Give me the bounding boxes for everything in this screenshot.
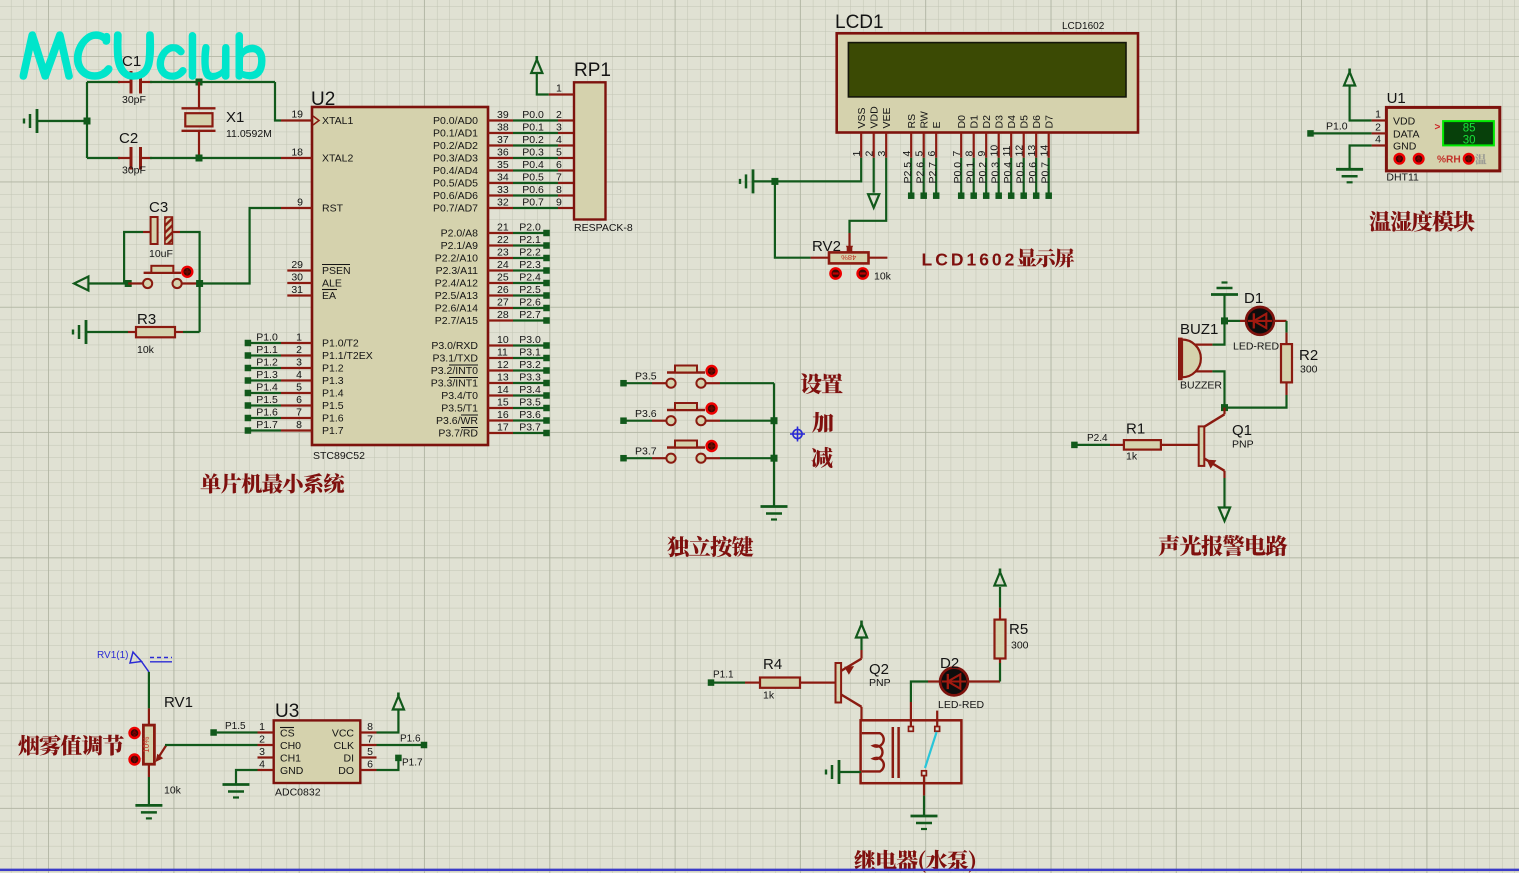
node P3.7	[620, 446, 657, 462]
svg-text:7: 7	[556, 172, 562, 184]
pin 5 DI	[344, 746, 377, 765]
svg-text:P2.3: P2.3	[519, 259, 541, 271]
wire	[148, 672, 150, 709]
svg-text:RW: RW	[919, 111, 931, 128]
label yanwuzhi tiaojie	[18, 735, 123, 756]
pin 4 GND	[236, 759, 304, 785]
ground	[1336, 169, 1363, 182]
svg-text:5: 5	[367, 746, 373, 758]
pin P2.4 / node P2.4	[435, 272, 550, 290]
ground	[761, 507, 788, 520]
svg-text:P0.6/AD6: P0.6/AD6	[433, 190, 478, 202]
svg-text:CLK: CLK	[334, 740, 354, 752]
node P3.6	[620, 408, 657, 424]
svg-text:300: 300	[1300, 364, 1318, 376]
svg-text:P1.4: P1.4	[256, 382, 278, 394]
pin P0.4 / node P0.4	[433, 159, 574, 177]
svg-text:D7: D7	[1044, 115, 1056, 129]
crystal X1	[182, 82, 272, 158]
label jidianqi (shuibeng)	[854, 850, 975, 873]
svg-text:>: >	[1435, 122, 1441, 133]
svg-text:P0.3/AD3: P0.3/AD3	[433, 153, 478, 165]
wire	[165, 744, 258, 746]
power VCC	[531, 56, 549, 95]
svg-text:LED-RED: LED-RED	[938, 699, 985, 711]
svg-text:D3: D3	[994, 115, 1006, 129]
pin P0.3 / node P0.3	[433, 147, 574, 165]
svg-text:13: 13	[1026, 145, 1038, 157]
svg-text:1: 1	[851, 151, 863, 157]
svg-text:9: 9	[556, 197, 562, 209]
push button K3	[652, 441, 720, 463]
svg-text:10uF: 10uF	[149, 248, 173, 260]
potentiometer RV1 10k	[130, 694, 193, 797]
label jia	[812, 412, 833, 433]
svg-text:P0.0/AD0: P0.0/AD0	[433, 115, 478, 127]
svg-text:30: 30	[1463, 135, 1476, 147]
resistor R1 1k	[1110, 421, 1199, 463]
wire / node P2.6	[915, 158, 927, 199]
LED D1 LED-RED	[1225, 290, 1287, 353]
pin EA	[287, 284, 337, 302]
svg-text:P2.7: P2.7	[519, 309, 541, 321]
node P3.5	[620, 371, 657, 387]
svg-text:GND: GND	[280, 765, 304, 777]
pin P0.2 / node P0.2	[433, 134, 574, 152]
svg-text:D6: D6	[1031, 115, 1043, 129]
svg-text:ADC0832: ADC0832	[275, 787, 321, 799]
svg-text:P2.1: P2.1	[519, 234, 541, 246]
svg-text:D2: D2	[981, 115, 993, 129]
junction	[196, 155, 203, 162]
svg-text:P0.3: P0.3	[522, 147, 544, 159]
svg-text:6: 6	[296, 394, 302, 406]
svg-text:10: 10	[989, 145, 1001, 157]
relay contact stub (NC)	[935, 711, 940, 732]
svg-text:R1: R1	[1126, 421, 1145, 438]
svg-text:21: 21	[497, 222, 509, 234]
svg-text:VSS: VSS	[856, 107, 868, 128]
svg-text:P0.0: P0.0	[952, 162, 964, 184]
svg-text:P3.3: P3.3	[519, 372, 541, 384]
svg-text:RV1(1): RV1(1)	[97, 650, 129, 661]
svg-text:STC89C52: STC89C52	[313, 450, 365, 462]
svg-text:R5: R5	[1009, 621, 1028, 638]
wire (VSS to ground)	[777, 158, 861, 182]
svg-text:P3.2/INT0: P3.2/INT0	[431, 365, 478, 377]
capacitor C3	[149, 199, 173, 260]
svg-text:P2.6/A14: P2.6/A14	[435, 303, 478, 315]
svg-text:11: 11	[1001, 145, 1013, 156]
svg-text:1: 1	[556, 83, 562, 95]
pin 8 VCC / power	[332, 693, 404, 740]
svg-text:11.0592M: 11.0592M	[226, 128, 272, 140]
svg-text:P1.5: P1.5	[256, 394, 278, 406]
svg-text:P1.2: P1.2	[322, 363, 344, 375]
push button (reset)	[128, 266, 199, 288]
svg-text:2: 2	[556, 109, 562, 121]
origin marker	[790, 427, 805, 442]
svg-text:P3.2: P3.2	[519, 359, 541, 371]
pin P1.2 / node P1.2	[245, 357, 344, 375]
svg-text:E: E	[931, 121, 943, 128]
wire	[1212, 371, 1224, 407]
svg-text:12: 12	[1014, 145, 1026, 157]
wire (to XTAL1 pin 19)	[275, 82, 281, 121]
pin 10 D3 of LCD1	[989, 115, 1006, 158]
pin 3 CH1	[258, 746, 302, 765]
pin 5 RW of LCD1	[914, 111, 931, 158]
svg-text:P1.6: P1.6	[322, 413, 344, 425]
pin P0.1 / node P0.1	[433, 122, 574, 140]
pin 4 RS of LCD1	[901, 114, 918, 158]
svg-text:48%: 48%	[841, 253, 856, 262]
svg-text:31: 31	[291, 284, 303, 296]
svg-text:14: 14	[497, 384, 509, 396]
buzzer BUZ1	[1178, 321, 1222, 392]
svg-text:P3.4/T0: P3.4/T0	[441, 390, 478, 402]
svg-text:4: 4	[296, 369, 302, 381]
svg-text:27: 27	[497, 297, 509, 309]
svg-text:P1.3: P1.3	[322, 375, 344, 387]
svg-text:P2.6: P2.6	[519, 297, 541, 309]
pin P3.2 / node P3.2	[431, 359, 550, 377]
svg-text:VCC: VCC	[332, 728, 355, 740]
svg-text:P3.6: P3.6	[519, 409, 541, 421]
relay contact (to D2)	[909, 682, 941, 732]
svg-text:RP1: RP1	[574, 60, 611, 81]
svg-text:U1: U1	[1387, 90, 1406, 107]
svg-text:P1.0/T2: P1.0/T2	[322, 338, 359, 350]
svg-text:4: 4	[556, 134, 562, 146]
wire	[1225, 395, 1287, 408]
svg-text:P1.4: P1.4	[322, 388, 344, 400]
pin P0.5 / node P0.5	[433, 172, 574, 190]
svg-text:16: 16	[497, 409, 509, 421]
svg-text:P3.7: P3.7	[519, 422, 541, 434]
svg-text:1k: 1k	[763, 690, 775, 702]
pin 2 DATA / node P1.0	[1307, 121, 1419, 141]
wire (VEE to RV2 wiper)	[846, 158, 886, 253]
svg-text:P1.7: P1.7	[322, 425, 344, 437]
wire	[87, 81, 275, 83]
svg-text:P0.4/AD4: P0.4/AD4	[433, 165, 478, 177]
pin 8 D1 of LCD1	[964, 115, 981, 158]
svg-text:P0.6: P0.6	[522, 184, 544, 196]
svg-text:P0.7/AD7: P0.7/AD7	[433, 203, 478, 215]
svg-text:D1: D1	[1244, 290, 1263, 307]
relay RL1	[861, 720, 962, 783]
capacitor C1	[122, 53, 146, 106]
wire	[128, 331, 200, 333]
svg-text:4: 4	[1375, 134, 1381, 146]
pin 12 D5 of LCD1	[1014, 115, 1031, 158]
svg-text:P2.7/A15: P2.7/A15	[435, 315, 478, 327]
pin P1.7 / node P1.7	[245, 419, 344, 437]
relay pole contact	[922, 771, 927, 815]
svg-text:P1.6: P1.6	[256, 407, 278, 419]
pin P2.2 / node P2.2	[435, 247, 550, 265]
op-amp U2 microcontroller STC89C52	[311, 89, 488, 462]
pin ALE	[287, 272, 342, 290]
svg-text:U2: U2	[311, 89, 335, 110]
svg-text:34: 34	[497, 172, 509, 184]
svg-text:9: 9	[297, 197, 303, 209]
logo MCUclub	[20, 32, 265, 80]
svg-text:11: 11	[497, 347, 508, 359]
ground	[135, 805, 162, 818]
svg-text:DI: DI	[344, 753, 355, 765]
potentiometer RV2 10k	[811, 238, 892, 283]
pin 1 of RP1	[549, 83, 574, 95]
pin 6 E of LCD1	[926, 121, 943, 157]
label danpianji zuixiao xitong	[201, 473, 345, 494]
svg-text:P0.5/AD5: P0.5/AD5	[433, 178, 478, 190]
svg-text:R3: R3	[137, 311, 156, 328]
pin P1.4 / node P1.4	[245, 382, 344, 400]
svg-text:P1.7: P1.7	[402, 758, 423, 769]
svg-text:17: 17	[497, 422, 509, 434]
sheet border	[0, 869, 1519, 871]
svg-text:P1.5: P1.5	[322, 400, 344, 412]
wire / node P0.3	[990, 158, 1002, 199]
svg-text:EA: EA	[322, 290, 336, 302]
svg-text:6: 6	[367, 759, 373, 771]
svg-text:RS: RS	[906, 114, 918, 129]
svg-text:C3: C3	[149, 199, 168, 216]
svg-text:X1: X1	[226, 109, 244, 126]
label shengguang baojing dianlu	[1159, 535, 1288, 556]
pin P2.1 / node P2.1	[441, 234, 550, 252]
svg-text:37: 37	[497, 134, 509, 146]
svg-text:D4: D4	[1006, 115, 1018, 129]
svg-text:8: 8	[296, 419, 302, 431]
svg-text:P3.1/TXD: P3.1/TXD	[432, 353, 478, 365]
svg-text:LCD1602: LCD1602	[922, 250, 1018, 270]
svg-text:P1.0: P1.0	[1326, 121, 1348, 133]
svg-text:P1.6: P1.6	[400, 734, 421, 745]
push button K1	[652, 366, 720, 388]
svg-text:P0.3: P0.3	[990, 162, 1002, 184]
svg-text:C2: C2	[119, 130, 138, 147]
relay switch lever	[925, 732, 937, 768]
svg-text:PNP: PNP	[1232, 439, 1254, 451]
svg-text:6: 6	[926, 151, 938, 157]
svg-text:10%: 10%	[142, 737, 151, 753]
junction	[196, 79, 203, 86]
svg-text:P2.4: P2.4	[519, 272, 541, 284]
svg-text:VEE: VEE	[881, 107, 893, 128]
svg-text:ALE: ALE	[322, 278, 342, 290]
node P2.4	[1071, 433, 1110, 448]
pin P3.3 / node P3.3	[431, 372, 550, 390]
svg-text:P0.7: P0.7	[1040, 162, 1052, 184]
svg-text:15: 15	[497, 397, 509, 409]
pin 2 CH0	[258, 734, 302, 753]
label shezhi	[801, 373, 843, 394]
wire (to RST pin 9)	[200, 208, 281, 284]
wire / node P0.6	[1027, 158, 1039, 199]
svg-text:P2.1/A9: P2.1/A9	[441, 240, 479, 252]
svg-text:39: 39	[497, 109, 509, 121]
svg-text:36: 36	[497, 147, 509, 159]
junction	[771, 455, 778, 462]
svg-text:DO: DO	[338, 765, 354, 777]
svg-text:7: 7	[951, 151, 963, 157]
pin XTAL1	[281, 109, 353, 128]
svg-text:8: 8	[367, 721, 373, 733]
svg-text:P3.1: P3.1	[519, 347, 541, 359]
svg-text:10k: 10k	[874, 271, 892, 283]
svg-text:P0.1: P0.1	[965, 162, 977, 184]
svg-text:D2: D2	[940, 655, 959, 672]
resistor pack RP1 RESPACK-8	[574, 60, 633, 234]
capacitor C2	[119, 130, 146, 177]
ground	[826, 760, 861, 784]
svg-text:P0.1/AD1: P0.1/AD1	[433, 128, 478, 140]
svg-text:13: 13	[497, 372, 509, 384]
svg-text:12: 12	[497, 359, 509, 371]
pin P3.5 / node P3.5	[441, 397, 550, 415]
wire	[86, 82, 88, 158]
LED D2 LED-RED	[938, 655, 1000, 711]
svg-text:P0.1: P0.1	[522, 122, 544, 134]
pin P1.6 / node P1.6	[245, 407, 344, 425]
ground (flipped)	[1211, 283, 1238, 295]
voltage probe RV1(1)	[97, 650, 172, 672]
pin P2.6 / node P2.6	[435, 297, 550, 315]
svg-text:5: 5	[296, 382, 302, 394]
label jian	[811, 447, 832, 468]
svg-text:P3.4: P3.4	[519, 384, 541, 396]
svg-text:P1.1/T2EX: P1.1/T2EX	[322, 350, 373, 362]
svg-text:C1: C1	[122, 53, 141, 70]
svg-text:P2.3/A11: P2.3/A11	[436, 265, 479, 277]
svg-text:RESPACK-8: RESPACK-8	[574, 222, 633, 234]
svg-text:P0.2: P0.2	[977, 162, 989, 184]
svg-text:30pF: 30pF	[122, 94, 146, 106]
node P1.1	[708, 670, 745, 686]
wire / node P2.7	[927, 158, 939, 199]
svg-text:P2.5/A13: P2.5/A13	[435, 290, 478, 302]
junction	[196, 280, 203, 287]
wire / node P0.5	[1015, 158, 1027, 199]
DHT11 buttons and %RH	[1395, 154, 1487, 166]
pin 7 D0 of LCD1	[951, 115, 968, 158]
svg-text:P1.1: P1.1	[713, 670, 734, 681]
svg-text:P0.7: P0.7	[522, 197, 544, 209]
pin 9 D2 of LCD1	[976, 115, 993, 158]
pin 13 D6 of LCD1	[1026, 115, 1043, 158]
svg-text:R4: R4	[763, 656, 782, 673]
pin 1 CS / node P1.5	[210, 721, 294, 740]
wire	[148, 777, 150, 805]
wire / node P2.5	[902, 158, 914, 199]
svg-text:3: 3	[296, 357, 302, 369]
pin P3.7 / node P3.7	[438, 422, 549, 440]
wire	[87, 157, 281, 159]
pin XTAL2	[281, 147, 353, 165]
svg-text:3: 3	[259, 746, 265, 758]
svg-text:P2.5: P2.5	[902, 162, 914, 184]
svg-text:P1.5: P1.5	[225, 721, 246, 732]
wire / node P0.4	[1002, 158, 1014, 199]
svg-text:DATA: DATA	[1393, 128, 1419, 140]
svg-text:P3.5: P3.5	[635, 371, 657, 383]
svg-text:P0.2/AD2: P0.2/AD2	[433, 140, 478, 152]
label wenshidu mokuai	[1370, 211, 1475, 232]
svg-text:4: 4	[259, 759, 265, 771]
svg-text:P0.4: P0.4	[1002, 162, 1014, 184]
svg-text:P3.5/T1: P3.5/T1	[441, 403, 478, 415]
ground	[740, 169, 775, 193]
svg-text:P2.4/A12: P2.4/A12	[435, 278, 478, 290]
wire / node P0.2	[977, 158, 989, 199]
svg-text:R2: R2	[1299, 347, 1318, 364]
svg-text:2: 2	[296, 344, 302, 356]
pin P1.1 / node P1.1	[245, 344, 373, 362]
svg-text:1k: 1k	[1126, 451, 1138, 463]
svg-text:2: 2	[259, 734, 265, 746]
svg-text:P3.0/RXD: P3.0/RXD	[431, 340, 478, 352]
svg-text:P1.1: P1.1	[256, 344, 278, 356]
svg-text:P3.7/RD: P3.7/RD	[438, 428, 478, 440]
svg-text:P2.2/A10: P2.2/A10	[435, 253, 478, 265]
svg-text:25: 25	[497, 272, 509, 284]
svg-text:PSEN: PSEN	[322, 265, 351, 277]
transistor Q1 PNP	[1199, 408, 1254, 478]
svg-text:5: 5	[914, 151, 926, 157]
svg-text:LCD1: LCD1	[835, 12, 884, 33]
wire	[720, 420, 774, 422]
svg-text:CH1: CH1	[280, 753, 301, 765]
svg-text:10: 10	[497, 334, 509, 346]
ground	[24, 109, 91, 133]
wire / node P0.7	[1040, 158, 1052, 199]
svg-text:U3: U3	[275, 701, 299, 722]
svg-text:P3.0: P3.0	[519, 334, 541, 346]
pin P1.0 / node P1.0	[245, 332, 359, 350]
svg-text:3: 3	[876, 151, 888, 157]
svg-text:14: 14	[1039, 145, 1051, 157]
svg-text:P1.0: P1.0	[256, 332, 278, 344]
svg-text:3: 3	[556, 122, 562, 134]
svg-text:1: 1	[296, 332, 302, 344]
resistor R5 300	[995, 608, 1029, 663]
svg-text:30pF: 30pF	[122, 165, 146, 177]
pin P0.7 / node P0.7	[433, 197, 574, 215]
pin P2.7 / node P2.7	[435, 309, 550, 327]
svg-text:P3.3/INT1: P3.3/INT1	[431, 378, 478, 390]
power (VDD down arrow)	[868, 158, 879, 208]
svg-text:P0.2: P0.2	[522, 134, 544, 146]
pin 1 VDD	[1372, 109, 1416, 128]
svg-text:P3.6/WR: P3.6/WR	[436, 415, 478, 427]
svg-text:RV1: RV1	[164, 694, 193, 711]
pin RST	[281, 197, 344, 215]
svg-text:33: 33	[497, 184, 509, 196]
svg-text:19: 19	[291, 109, 303, 121]
junction	[771, 417, 778, 424]
svg-text:LCD1602: LCD1602	[1062, 21, 1105, 32]
pin 7 CLK / node P1.6	[334, 734, 428, 753]
power VCC	[994, 569, 1005, 608]
svg-text:18: 18	[291, 147, 303, 159]
svg-text:4: 4	[901, 151, 913, 157]
svg-text:P0.5: P0.5	[522, 172, 544, 184]
svg-text:P2.6: P2.6	[915, 162, 927, 184]
power VCC	[856, 621, 867, 651]
